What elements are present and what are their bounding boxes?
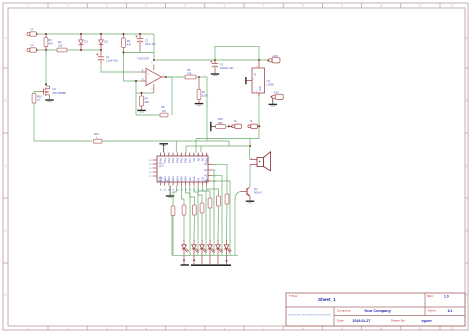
power flag -12V [271,90,284,99]
wire column x207 [206,77,208,141]
wire lower rail [37,49,101,51]
svg-text:2019-01-27: 2019-01-27 [353,319,371,323]
op-amp U2 TL072CP [137,56,166,93]
ground R4 [137,110,146,112]
wires resistors to LEDs [173,204,227,255]
svg-text:12: 12 [206,154,208,156]
svg-text:AD4: AD4 [175,176,179,182]
svg-text:TL072CP: TL072CP [137,56,149,60]
svg-text:B: B [5,99,7,103]
svg-text:OSC2: OSC2 [158,166,164,168]
probe bar R16 [211,122,216,131]
svg-text:PA2: PA2 [167,158,171,163]
svg-text:Sheet:: Sheet: [428,309,437,313]
capacitor C2 [135,34,156,53]
svg-text:TITLE:: TITLE: [289,294,298,298]
LED resistors R8-R13 [171,194,229,216]
svg-text:R1: R1 [49,38,53,42]
svg-text:R5: R5 [161,105,165,109]
wires IC pins to LED bus [198,170,230,255]
svg-text:PA1: PA1 [163,158,167,163]
svg-text:1/1: 1/1 [448,309,453,313]
svg-text:OUT: OUT [259,85,262,91]
resistor R15 [32,94,42,104]
svg-text:D: D [5,229,7,233]
svg-text:B: B [466,99,468,103]
ground bar LEDs left [181,264,190,266]
connector J2 [231,119,242,129]
svg-text:16: 16 [149,172,151,174]
svg-text:Date:: Date: [337,319,345,323]
svg-text:CK: CK [192,158,196,162]
resistor R14 [93,132,102,143]
svg-text:GND: GND [158,178,163,180]
svg-text:3: 3 [168,154,169,156]
ground bar LEDs right [191,264,231,266]
svg-text:R15: R15 [37,95,42,99]
ground C3 [211,74,220,76]
svg-text:66K: 66K [145,100,150,104]
svg-text:AD3: AD3 [171,176,175,182]
svg-text:15: 15 [149,168,151,170]
resistor R7 [197,77,208,103]
ground Q1 [45,100,54,102]
wire R3 C2 bottoms [123,52,154,54]
wire gate to R15 [34,92,40,94]
svg-text:Your Company: Your Company [364,309,392,313]
junction dots LED bus [183,259,227,261]
svg-text:9014-C: 9014-C [254,191,263,195]
svg-text:66K: 66K [218,121,223,125]
svg-text:2: 2 [164,154,165,156]
svg-text:8: 8 [189,154,190,156]
svg-text:14: 14 [149,164,151,166]
svg-text:R16: R16 [218,117,223,121]
svg-text:A9: A9 [201,158,205,162]
svg-text:Sheet_1: Sheet_1 [318,297,336,302]
wire feedback right [166,77,172,115]
svg-text:10: 10 [197,154,199,156]
wire J1 to U3 column [257,125,260,127]
ground U3 pin2 [245,77,247,84]
wire Q2 base curve [235,192,241,256]
resistor R3 [122,34,132,53]
svg-text:Q2: Q2 [254,187,258,191]
svg-text:L1: L1 [31,27,34,31]
diode D1 [79,34,89,50]
svg-text:C1: C1 [106,55,110,59]
svg-text:47K: 47K [127,42,132,46]
svg-text:R6: R6 [187,68,191,72]
resistor R16 [216,117,226,128]
wire top rail drop [153,34,155,60]
svg-text:R7: R7 [202,90,206,94]
svg-text:470: 470 [49,42,54,46]
svg-text:100K: 100K [202,93,208,97]
svg-text:D: D [466,229,468,233]
svg-text:C: C [466,164,468,168]
svg-text:13: 13 [149,160,151,162]
svg-text:Q1: Q1 [53,87,57,91]
svg-text:1000uF-16v: 1000uF-16v [220,66,235,70]
svg-text:Drawn By:: Drawn By: [391,319,405,323]
ground above IC [159,144,168,153]
svg-text:egorrr: egorrr [422,319,433,323]
transistor Q2 9014-C [241,187,263,197]
svg-text:E: E [466,293,468,297]
svg-text:D2: D2 [105,39,109,43]
ground -12V [269,98,278,106]
transistor Q1 IRF740PBF [40,86,66,100]
IC U4 [149,153,215,192]
wire V+ rail [154,59,268,61]
svg-text:L7805: L7805 [267,83,275,87]
svg-text:PA6: PA6 [184,158,188,163]
resistor R5 [160,105,168,117]
svg-text:1M: 1M [162,109,166,113]
svg-text:U3: U3 [267,79,271,83]
wire C1 to op-amp pin2 [101,63,141,72]
ground R7 [195,104,204,106]
svg-text:40: 40 [160,189,162,191]
wire drop to IC pin a [175,141,177,153]
regulator U3 L7805 [247,60,275,96]
svg-text:220: 220 [58,43,63,47]
wire R15 down [33,103,35,141]
svg-text:D1: D1 [85,39,89,43]
wire rail bump [215,46,259,60]
svg-text:39: 39 [164,189,166,191]
speaker LS1 [250,152,271,171]
svg-text:36: 36 [176,189,178,191]
svg-text:R2: R2 [58,40,62,44]
svg-text:A: A [466,36,468,40]
svg-text:A8: A8 [196,158,200,162]
wire feedback left [135,80,137,115]
svg-text:R3: R3 [127,39,131,43]
svg-text:AD6: AD6 [184,176,188,182]
wire L1 column to Q1 [45,50,47,86]
junction dots V+ rail [214,59,260,61]
svg-text:A10: A10 [205,158,209,163]
power flag +12V [267,54,280,63]
connector J1 [248,119,259,129]
wire to op-amp pin3 [124,53,142,82]
svg-text:PA7: PA7 [188,158,192,163]
svg-text:C3: C3 [220,62,224,66]
diode D2 [99,34,109,50]
svg-text:Company:: Company: [337,309,351,313]
svg-text:-: - [147,80,148,84]
title block [286,293,465,326]
svg-text:C2: C2 [145,38,149,42]
wire long mid rail [34,140,229,142]
wire feedback bottom [136,114,160,116]
junction speaker node [249,145,251,147]
wire top rail [37,33,154,35]
wire speaker to Q2 collector [249,165,251,187]
svg-text:R4: R4 [145,97,149,101]
junction R6 right [198,76,200,78]
svg-text:-12V: -12V [273,90,279,94]
svg-text:7: 7 [185,154,186,156]
svg-text:REV:: REV: [427,294,434,298]
svg-text:R14: R14 [94,132,99,136]
svg-text:C: C [5,164,7,168]
wires IC pins to resistors [173,164,227,255]
svg-text:IRF740PBF: IRF740PBF [53,91,67,95]
ground Q2 [246,201,255,203]
resistor R1 [44,34,53,50]
svg-text:PA4: PA4 [175,158,179,163]
wire to speaker [249,146,251,160]
svg-text:4: 4 [172,154,173,156]
svg-text:6: 6 [181,154,182,156]
resistor R4 [140,93,150,110]
svg-text:PA3: PA3 [171,158,175,163]
connector L2 [27,43,38,52]
svg-text:37: 37 [172,189,174,191]
svg-text:11: 11 [202,154,204,156]
svg-text:L2: L2 [31,43,34,47]
capacitor C1 [96,50,118,63]
wire Q2 emitter [249,196,251,200]
svg-text:VCC: VCC [166,180,171,182]
svg-text:A: A [5,36,7,40]
svg-text:AD7: AD7 [188,176,192,182]
LEDs LED1-LED6 [182,240,232,264]
svg-text:10uF-16v: 10uF-16v [145,42,157,46]
wire elbow to H3 [228,141,230,146]
capacitor C3 [210,60,234,74]
svg-text:1.0: 1.0 [444,295,449,299]
svg-text:AD5: AD5 [180,176,184,182]
ground below IC [166,186,175,198]
resistor R6 [185,68,196,79]
svg-text:1: 1 [160,154,161,156]
junction op-amp V+ [153,59,155,61]
junction op-amp out [165,76,167,78]
wire R16 to J2 [226,125,232,127]
svg-text:ALE: ALE [192,176,196,181]
wire H3 [186,146,250,153]
wire U3 out column [250,96,260,146]
svg-text:J2: J2 [234,119,237,123]
svg-text:J1: J1 [250,119,253,123]
connector L1 [27,27,38,36]
resistor R2 [57,40,67,52]
svg-text:PA0: PA0 [159,158,163,163]
svg-text:9: 9 [193,154,194,156]
svg-text:PS: PS [196,178,200,182]
wire LED bus [172,216,238,256]
svg-text:IN: IN [254,73,257,76]
wire pin4 net [136,92,154,94]
svg-text:-: - [251,164,252,168]
wire H2 to IC [196,139,250,153]
svg-text:5: 5 [176,154,177,156]
svg-text:2.2uF-50v: 2.2uF-50v [106,58,118,62]
svg-text:E: E [5,293,7,297]
wire out to R6 [166,76,185,78]
svg-text:easyeda.com/editor/schematic: easyeda.com/editor/schematic [289,314,332,317]
svg-text:17: 17 [149,176,151,178]
wire R6 to column [196,76,207,78]
svg-text:+12V: +12V [272,54,279,58]
svg-text:PA5: PA5 [180,158,184,163]
svg-text:+: + [251,156,253,160]
svg-text:47K: 47K [187,71,192,75]
junction dots input rails [45,33,141,51]
